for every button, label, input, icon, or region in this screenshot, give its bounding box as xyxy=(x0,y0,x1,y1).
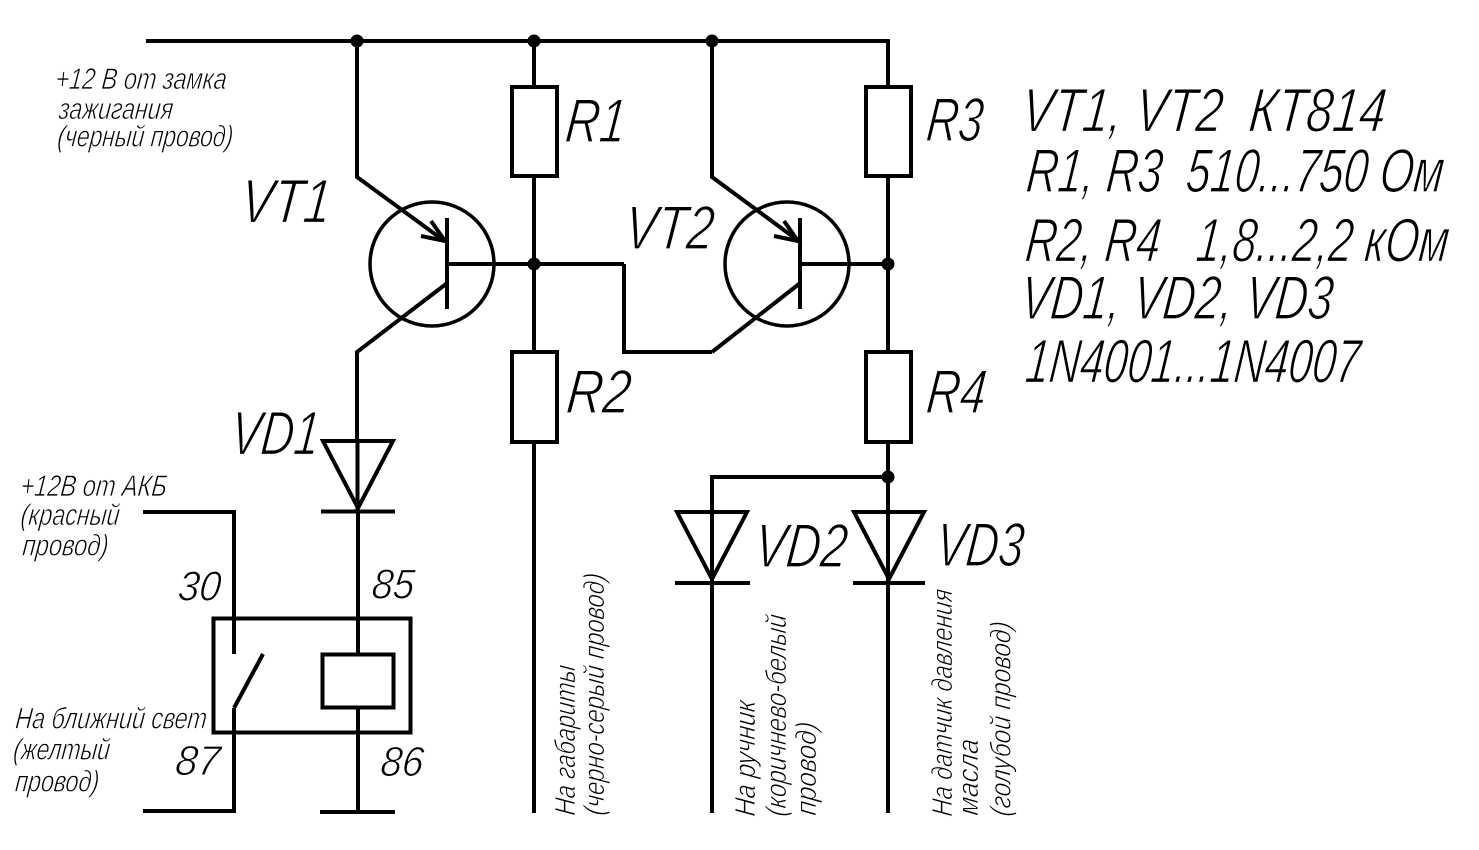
svg-text:+12 В от замка: +12 В от замка xyxy=(54,63,229,96)
svg-text:провод): провод) xyxy=(21,529,110,562)
label "+12В от АКБ (красный провод)" xyxy=(19,470,169,562)
wire VT1 base to node B xyxy=(447,262,624,266)
resistor R3 xyxy=(866,87,911,264)
svg-text:R3: R3 xyxy=(924,86,988,155)
junction node bus/VT1-emitter xyxy=(351,35,364,48)
svg-text:(красный: (красный xyxy=(19,499,121,532)
resistor R2 xyxy=(512,264,557,442)
wire node B to VT2 collector xyxy=(624,264,712,352)
wire +12V battery to relay pin 30 xyxy=(143,512,234,654)
svg-text:1N4001...1N4007: 1N4001...1N4007 xyxy=(1023,328,1366,397)
resistor R1 xyxy=(512,41,557,264)
diode VD1 xyxy=(321,441,395,512)
wire VD1 anode through symbol xyxy=(356,441,360,512)
label "+12 В от замка зажигания (черный провод)" xyxy=(54,63,235,154)
svg-text:85: 85 xyxy=(370,560,418,607)
svg-text:масла: масла xyxy=(953,737,985,817)
svg-text:86: 86 xyxy=(379,738,427,785)
svg-text:VT1: VT1 xyxy=(238,168,335,237)
svg-text:+12В от АКБ: +12В от АКБ xyxy=(19,470,169,503)
svg-text:На ручник: На ручник xyxy=(730,697,762,817)
svg-text:VT2: VT2 xyxy=(622,194,718,263)
svg-text:(черно-серый провод): (черно-серый провод) xyxy=(579,571,611,816)
diode VD3 xyxy=(853,477,925,583)
label "На ближний свет (желтый провод)" xyxy=(12,702,209,798)
svg-text:На габариты: На габариты xyxy=(550,663,582,816)
wire VT1 collector xyxy=(357,284,446,441)
junction node bus/VT2-emitter xyxy=(706,35,719,48)
wire relay pin 87 to headlight output xyxy=(143,708,234,811)
junction node C (R3/R4/VT2 base) xyxy=(882,258,895,271)
svg-text:VD3: VD3 xyxy=(933,511,1028,580)
VT1 emitter arrow xyxy=(421,221,445,241)
junction node bus/R1 xyxy=(528,35,541,48)
relay coil xyxy=(323,655,394,708)
svg-text:R4: R4 xyxy=(924,358,990,427)
wire relay coil to end bar (pin 86) xyxy=(356,708,360,813)
svg-text:R1, R3 510...750 Ом: R1, R3 510...750 Ом xyxy=(1024,137,1448,206)
svg-text:VD1, VD2, VD3: VD1, VD2, VD3 xyxy=(1018,264,1338,333)
diode VD2 xyxy=(675,512,750,583)
junction node D (R4/VD2/VD3) xyxy=(882,471,895,484)
wire VT1 emitter lead xyxy=(357,41,443,240)
svg-text:провод): провод) xyxy=(14,766,101,799)
junction node B (R1/R2/VT1 base) xyxy=(528,258,541,271)
svg-text:(голубой провод): (голубой провод) xyxy=(985,620,1017,818)
svg-text:(желтый: (желтый xyxy=(12,734,112,767)
svg-text:R1: R1 xyxy=(563,87,630,156)
wire VD3 to oil pressure output xyxy=(886,583,890,813)
wire VT2 emitter lead xyxy=(712,41,796,239)
resistor R4 xyxy=(866,264,911,477)
wire +12V ignition top bus xyxy=(146,41,888,87)
svg-text:VT1, VT2 КТ814: VT1, VT2 КТ814 xyxy=(1019,77,1390,146)
wire VT2 collector diagonal xyxy=(712,284,799,352)
transistor VT2 xyxy=(725,202,849,326)
label "На габариты (черно-серый провод)" rotated xyxy=(550,571,611,816)
label "На датчик давления масла (голубой провод)" rotated xyxy=(927,587,1017,817)
svg-text:провод): провод) xyxy=(791,720,823,817)
svg-text:(коричнево-белый: (коричнево-белый xyxy=(761,613,793,818)
wire R2 to sidelights output xyxy=(532,442,536,813)
wire VT2 base to node C xyxy=(800,262,888,266)
svg-text:30: 30 xyxy=(176,563,224,610)
svg-text:На ближний свет: На ближний свет xyxy=(14,702,209,735)
wire node D to VD2 xyxy=(712,477,888,583)
svg-text:(черный провод): (черный провод) xyxy=(56,121,235,154)
label "На ручник (коричнево-белый провод)" rotated xyxy=(730,613,823,818)
chassis end bar under pin 86 xyxy=(320,810,395,814)
wire VD1 to relay coil pin 85 xyxy=(356,512,360,655)
relay body K1 xyxy=(214,619,411,733)
wire VD2 to handbrake output xyxy=(710,583,714,813)
svg-text:VD2: VD2 xyxy=(751,512,851,581)
svg-text:VD1: VD1 xyxy=(228,400,324,469)
relay switch blade xyxy=(234,654,263,708)
transistor VT1 xyxy=(370,202,494,326)
svg-text:87: 87 xyxy=(173,737,224,784)
svg-text:R2: R2 xyxy=(564,358,635,427)
VT2 emitter arrow xyxy=(774,221,798,241)
